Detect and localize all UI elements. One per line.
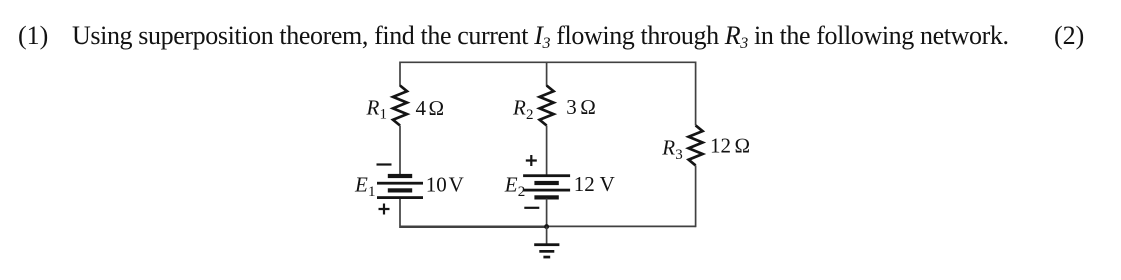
svg-text:12 V: 12 V	[574, 172, 615, 196]
resistor R1	[393, 86, 407, 126]
resistor R2	[540, 86, 554, 126]
E2 plus sign	[526, 155, 537, 166]
svg-text:12 Ω: 12 Ω	[710, 134, 750, 158]
svg-text:R: R	[661, 136, 675, 160]
svg-text:1: 1	[380, 106, 388, 122]
svg-text:4 Ω: 4 Ω	[416, 96, 445, 120]
battery E1	[377, 174, 423, 199]
svg-text:10 V: 10 V	[426, 172, 464, 196]
svg-text:R: R	[512, 96, 526, 120]
marks (2)	[1054, 23, 1084, 49]
svg-text:1: 1	[368, 184, 376, 200]
wire left branch lower	[400, 199, 547, 227]
wire left branch upper	[399, 62, 401, 87]
svg-text:3: 3	[675, 147, 683, 163]
svg-text:E: E	[504, 173, 518, 197]
wire middle branch lower	[546, 199, 548, 227]
wire right branch upper	[695, 62, 697, 126]
wire middle branch upper	[546, 62, 548, 86]
junction node	[544, 224, 549, 229]
wire top rail	[400, 61, 696, 63]
svg-text:3 Ω: 3 Ω	[566, 95, 596, 119]
svg-text:2: 2	[518, 184, 526, 200]
question text	[72, 23, 1009, 49]
question number (1)	[18, 23, 48, 49]
wire middle branch middle	[546, 126, 548, 177]
svg-text:R: R	[366, 96, 380, 120]
E1 plus sign	[379, 204, 390, 215]
svg-text:2: 2	[526, 107, 534, 123]
resistor R3	[689, 125, 703, 165]
ground	[546, 226, 548, 243]
wire bottom rail	[400, 225, 696, 227]
svg-text:E: E	[354, 173, 368, 197]
battery E2	[523, 174, 570, 199]
wire left branch middle	[399, 126, 401, 177]
E1 minus sign	[377, 163, 392, 165]
wire right branch lower	[695, 165, 697, 227]
E2 minus sign	[524, 207, 539, 209]
